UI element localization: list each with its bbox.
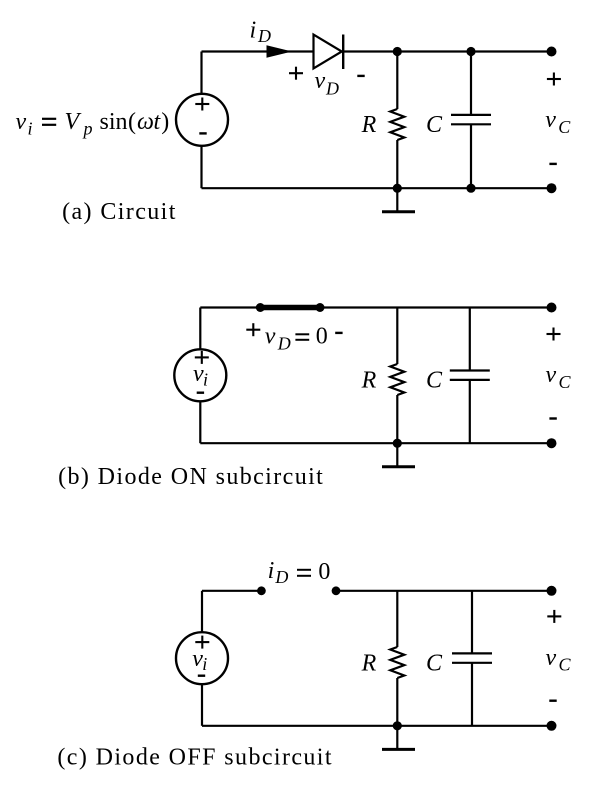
svg-text:i: i: [203, 370, 208, 390]
svg-text:C: C: [558, 117, 571, 137]
svg-text:): ): [161, 109, 169, 135]
svg-text:R: R: [361, 112, 377, 138]
svg-text:(: (: [128, 109, 136, 135]
svg-text:sin: sin: [100, 109, 128, 135]
svg-text:C: C: [559, 655, 572, 675]
svg-text:(b) Diode ON subcircuit: (b) Diode ON subcircuit: [58, 464, 324, 490]
svg-text:i: i: [28, 119, 33, 139]
svg-text:v: v: [545, 107, 556, 133]
svg-text:D: D: [277, 334, 291, 354]
svg-text:D: D: [274, 567, 288, 587]
svg-text:i: i: [250, 18, 257, 44]
svg-text:C: C: [559, 372, 572, 392]
svg-text:v: v: [265, 323, 276, 349]
svg-text:p: p: [82, 119, 93, 139]
svg-text:C: C: [426, 650, 443, 676]
svg-text:V: V: [65, 109, 82, 135]
svg-text:R: R: [361, 650, 377, 676]
svg-text:ω: ω: [137, 109, 154, 135]
svg-text:v: v: [16, 109, 27, 135]
svg-text:v: v: [315, 68, 326, 94]
svg-text:v: v: [546, 645, 557, 671]
svg-text:C: C: [426, 367, 443, 393]
svg-text:D: D: [257, 26, 271, 46]
svg-text:R: R: [361, 367, 377, 393]
svg-text:0: 0: [316, 324, 328, 350]
svg-text:0: 0: [318, 559, 330, 585]
svg-text:D: D: [325, 79, 339, 99]
svg-text:C: C: [426, 112, 443, 138]
svg-text:v: v: [546, 362, 557, 388]
svg-text:(c) Diode OFF subcircuit: (c) Diode OFF subcircuit: [57, 744, 333, 770]
svg-text:i: i: [202, 654, 207, 674]
svg-text:i: i: [268, 558, 275, 584]
svg-text:(a) Circuit: (a) Circuit: [62, 199, 177, 225]
